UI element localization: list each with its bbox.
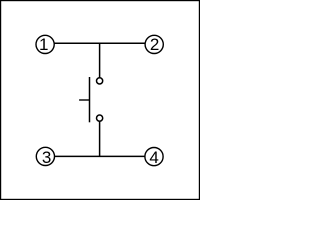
svg-text:3: 3 (42, 148, 51, 167)
svg-text:4: 4 (149, 148, 158, 167)
terminal 3 (36, 147, 54, 167)
wire bottom: terminal 3 to terminal 4 (55, 155, 145, 157)
wire top: terminal 1 to terminal 2 (55, 42, 146, 44)
svg-text:1: 1 (39, 35, 48, 54)
terminal 2 (145, 35, 163, 54)
contact circle bottom (movable contact) (97, 115, 103, 121)
wire stub: top wire down to fixed contact (99, 43, 101, 77)
contact circle top (fixed contact) (97, 78, 103, 84)
wire stub: movable contact down to bottom wire (99, 122, 101, 157)
switch actuator (plunger bar with tick) (79, 77, 89, 122)
svg-text:2: 2 (150, 35, 159, 54)
terminal 4 (145, 148, 163, 167)
terminal 1 (36, 35, 54, 54)
